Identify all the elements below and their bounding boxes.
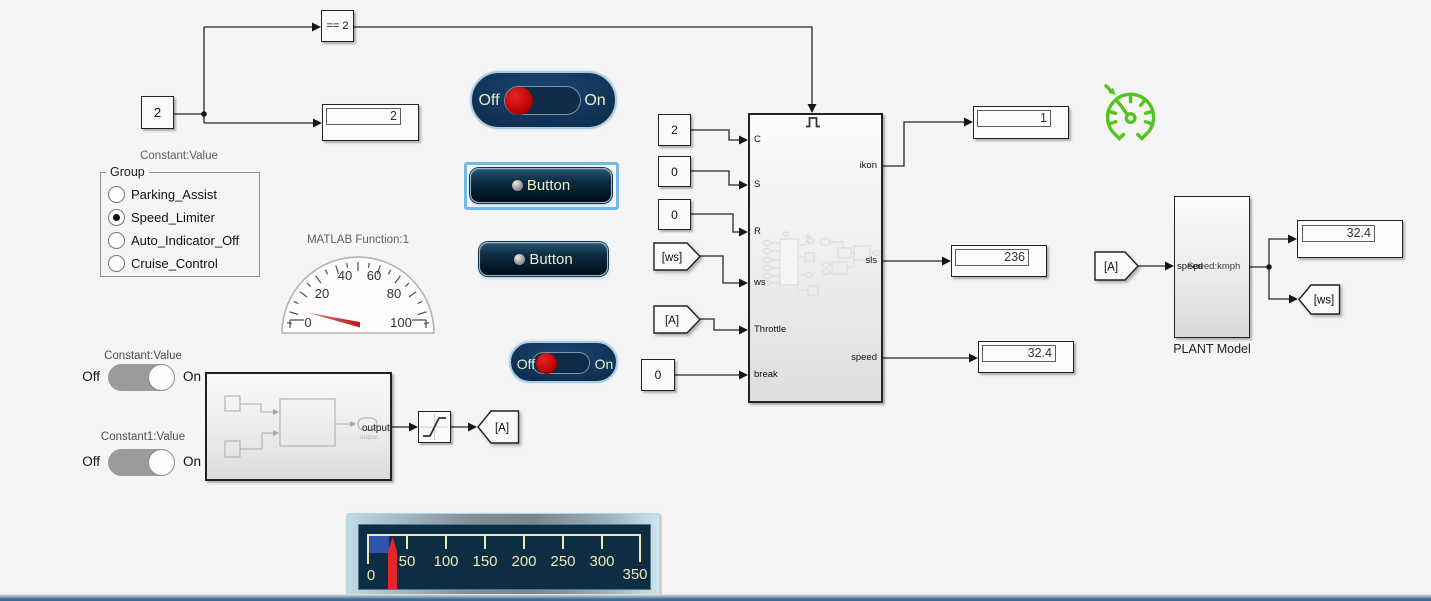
slider Constant1 knob	[148, 449, 175, 476]
svg-text:200: 200	[511, 553, 536, 570]
rocker 1 Off label	[473, 92, 505, 110]
wire to ==2	[204, 26, 313, 28]
label Constant:Value (top)	[119, 150, 239, 162]
svg-text:50: 50	[399, 553, 416, 570]
constant block 2 (input C)	[658, 114, 691, 146]
rocker 1 On label	[579, 92, 611, 110]
linear gauge scale line and ticks	[367, 535, 641, 564]
svg-text:20: 20	[315, 286, 329, 301]
constant block 0 (input break)	[641, 359, 675, 391]
linear gauge frame	[346, 513, 660, 598]
port label R	[754, 226, 761, 237]
gauge face	[282, 257, 434, 333]
arrowhead port ws	[739, 279, 748, 288]
push button 1	[470, 168, 612, 203]
svg-text:150: 150	[472, 553, 497, 570]
arrowhead into display32.4 right	[1288, 235, 1297, 244]
svg-text:300: 300	[589, 553, 614, 570]
label Constant:Value (middle)	[83, 350, 203, 362]
from tag A	[653, 305, 701, 339]
port label speed overlapping Speed:kmph	[1177, 261, 1203, 272]
linear gauge red needle	[388, 537, 397, 589]
arrowhead into A goto	[468, 423, 477, 432]
linear gauge scale numbers	[367, 553, 648, 584]
arrowhead into ==2	[312, 23, 321, 32]
port label S	[754, 179, 760, 190]
svg-text:[ws]: [ws]	[1314, 295, 1334, 307]
rocker 2 track	[532, 352, 590, 374]
radio Speed_Limiter (selected)	[108, 209, 125, 226]
wire junction up to display	[1269, 239, 1289, 267]
wire from A tag to port Throttle	[700, 319, 740, 330]
svg-text:[A]: [A]	[495, 423, 509, 435]
arrowhead into ws goto	[1289, 295, 1298, 304]
saturation block	[418, 411, 451, 443]
svg-text:[A]: [A]	[665, 315, 679, 327]
constant block 0 (input S)	[658, 156, 691, 187]
trigger pulse symbol	[803, 116, 825, 130]
arrowhead into PLANT	[1165, 262, 1174, 271]
group legend	[106, 165, 149, 179]
display block value 32.4	[978, 341, 1074, 373]
junction node at PLANT output	[1266, 264, 1272, 270]
slider Constant Off label	[70, 369, 100, 384]
svg-text:250: 250	[550, 553, 575, 570]
wire const 0 to port R	[691, 214, 740, 232]
button text	[527, 177, 570, 194]
push button 1 with selection frame	[464, 162, 619, 210]
rocker switch 2 (small)	[509, 341, 618, 383]
svg-text:0: 0	[367, 567, 375, 584]
svg-text:output: output	[362, 423, 390, 434]
radio Cruise_Control	[108, 255, 125, 272]
arrowhead port break	[739, 371, 748, 380]
wire junction vertical	[203, 27, 205, 123]
svg-text:60: 60	[367, 268, 381, 283]
linear gauge blue range segment	[368, 536, 389, 553]
button lamp icon	[512, 180, 523, 191]
arrowhead port C	[739, 136, 748, 145]
wire ==2 output to subsystem trigger	[354, 27, 812, 105]
slider Constant On label	[183, 369, 201, 384]
display block value 236	[951, 245, 1047, 277]
svg-text:350: 350	[622, 566, 647, 583]
radio Parking_Assist	[108, 186, 125, 203]
port label Throttle	[754, 324, 786, 335]
rocker 1 track	[504, 86, 581, 115]
arrowhead port R	[739, 228, 748, 237]
radio group box	[100, 172, 260, 277]
svg-text:0: 0	[304, 315, 311, 330]
svg-text:output: output	[360, 434, 378, 441]
from tag ws	[653, 242, 701, 276]
svg-text:100: 100	[433, 553, 458, 570]
slider switch Constant	[108, 364, 175, 391]
gauge needle	[307, 313, 360, 328]
junction node at constant 2	[201, 111, 207, 117]
gauge scale numbers	[304, 268, 411, 330]
svg-text:[A]: [A]	[1104, 262, 1118, 274]
compare block == 2	[321, 10, 354, 42]
rocker switch 1 (large)	[470, 71, 617, 129]
subsystem block (lower-left)	[205, 372, 392, 481]
svg-text:40: 40	[338, 268, 352, 283]
arrowhead port Throttle	[739, 326, 748, 335]
constant block 0 (input R)	[658, 199, 691, 230]
wire from ws tag to port ws	[700, 256, 740, 283]
rocker 1 red knob	[505, 87, 533, 115]
arrowhead port S	[739, 181, 748, 190]
wire const 0 to port break	[675, 374, 740, 376]
port label sls	[865, 255, 877, 266]
gauge dark panel	[358, 524, 651, 590]
wire PLANT out to junction	[1250, 266, 1269, 268]
rocker 2 On label	[591, 356, 617, 372]
rocker 2 Off label	[512, 356, 540, 372]
wire speed to display32.4	[883, 357, 970, 359]
radio Auto_Indicator_Off	[108, 232, 125, 249]
wire ikon to display1	[883, 122, 965, 166]
svg-text:100: 100	[390, 315, 412, 330]
button lamp icon	[514, 254, 525, 265]
wire saturation to A goto	[451, 426, 469, 428]
arrowhead into display1	[964, 118, 973, 127]
from tag A (right)	[1094, 251, 1139, 286]
wire junction to display2	[204, 122, 314, 124]
wire const 0 to port S	[691, 171, 740, 185]
wire A tag to PLANT	[1138, 265, 1166, 267]
wire junction down to ws goto	[1269, 267, 1290, 299]
arrowhead into saturation	[409, 423, 418, 432]
display block value 2	[322, 104, 419, 141]
goto tag ws	[1298, 284, 1341, 320]
svg-text:[ws]: [ws]	[662, 252, 682, 264]
slider Constant1 On label	[183, 454, 201, 469]
button text	[529, 251, 572, 268]
wire sls to display236	[883, 260, 943, 262]
faint inner diagram	[750, 115, 881, 401]
port label C	[754, 134, 761, 145]
bottom window edge strip	[0, 594, 1431, 601]
gauge MATLAB Function:1	[280, 252, 438, 336]
display block value 1	[973, 106, 1069, 139]
slider Constant knob	[148, 364, 175, 391]
arrowhead into display236	[942, 257, 951, 266]
main subsystem block	[748, 113, 883, 403]
label PLANT Model	[1152, 342, 1272, 356]
green dashboard icon	[1100, 80, 1166, 146]
push button 2	[479, 242, 608, 276]
slider switch Constant1	[108, 449, 175, 476]
port label break	[754, 369, 778, 380]
svg-text:80: 80	[387, 286, 401, 301]
arrowhead down into trigger	[808, 104, 817, 113]
label Constant1:Value	[83, 431, 203, 443]
arrowhead into display32.4	[969, 354, 978, 363]
display block value 32.4 (right)	[1297, 220, 1403, 258]
wire subsystem to saturation	[392, 426, 410, 428]
wire constant2 to junction	[174, 113, 204, 115]
gauge tick marks	[287, 262, 429, 328]
rocker 2 red knob	[536, 353, 557, 374]
arrowhead into display2	[313, 119, 322, 128]
constant block 2 (top-left)	[141, 96, 174, 129]
goto tag A	[477, 410, 520, 449]
port label speed	[851, 352, 877, 363]
port label ws	[754, 277, 766, 288]
label MATLAB Function:1	[298, 234, 418, 246]
wire const 2 to port C	[691, 130, 740, 140]
port label ikon	[860, 160, 877, 171]
slider Constant1 Off label	[70, 454, 100, 469]
PLANT Model block	[1174, 196, 1250, 338]
